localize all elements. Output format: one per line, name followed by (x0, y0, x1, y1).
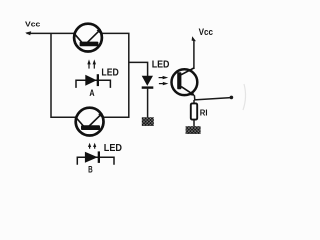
svg-text:Vcc: Vcc (25, 19, 40, 28)
svg-text:LED: LED (104, 143, 122, 154)
svg-text:LED: LED (152, 60, 170, 71)
svg-text:RI: RI (200, 108, 208, 117)
svg-text:A: A (89, 88, 95, 98)
svg-text:Vcc: Vcc (199, 27, 213, 37)
svg-text:LED: LED (101, 67, 118, 78)
svg-text:B: B (88, 164, 93, 174)
